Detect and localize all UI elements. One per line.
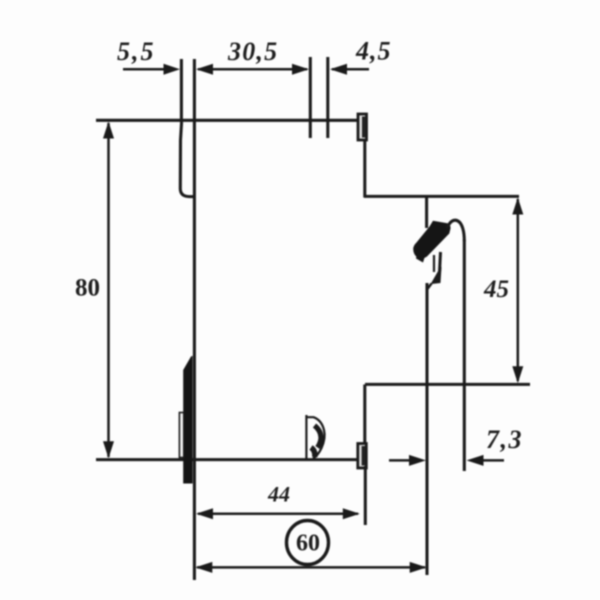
dim 80 bottom arrowhead — [103, 441, 114, 458]
dim 44 line — [198, 513, 358, 516]
toggle tab outline (top front) — [180, 122, 194, 197]
dim 30,5 line — [198, 68, 307, 71]
hook curve over claw to back face — [447, 220, 464, 241]
DIN claw black blob — [413, 221, 450, 263]
dim 5,5 arrow line — [123, 68, 166, 71]
dim 45 vertical line — [517, 199, 520, 381]
dim 44 left arrowhead — [196, 508, 213, 519]
svg-text:44: 44 — [267, 482, 290, 507]
dim 45 top arrowhead — [512, 198, 523, 215]
dim 60 circle — [287, 521, 329, 565]
back inner face lower (x=427) extended down for dim 60 — [425, 283, 428, 575]
body back upper edge (x=426.8) — [425, 197, 428, 229]
extension line 4,5 right (x=328) — [326, 57, 329, 138]
body right lower edge (x=365) — [363, 385, 366, 445]
dim 4,5 arrow line — [332, 68, 369, 71]
extension line 5,5 left (x=181.5) — [180, 59, 183, 122]
svg-text:30,5: 30,5 — [227, 37, 278, 66]
svg-text:60: 60 — [296, 531, 320, 557]
claw spring slot detail — [427, 252, 441, 290]
dim 44 right arrowhead — [343, 508, 360, 519]
svg-text:45: 45 — [483, 276, 509, 303]
dim 5,5 arrowhead — [164, 64, 181, 75]
toggle lever black bar (bottom front) — [183, 356, 192, 484]
body right upper edge (x=365) — [363, 140, 366, 198]
dim 60 right arrowhead — [410, 562, 427, 573]
dim 45 bottom arrowhead — [512, 366, 523, 383]
svg-text:80: 80 — [75, 275, 100, 302]
dim 80 vertical line — [107, 123, 110, 457]
toggle lock tab outline — [179, 413, 183, 458]
back outer face (x=464.3) — [463, 240, 466, 471]
dim 30,5 right arrowhead — [292, 64, 309, 75]
dim 60 line — [197, 566, 425, 569]
dim 7,3 right arrow — [482, 459, 504, 462]
dim 7,3 left arrow — [389, 459, 411, 462]
back step edge (y=384.5) extended right for dim 45 — [365, 383, 530, 386]
dim 80 top arrowhead — [103, 122, 114, 139]
body bottom edge (y=460) with left extension for dim 80 — [96, 458, 358, 461]
body front face (x=194.5) extended top and bottom as extension line — [193, 59, 196, 580]
top terminal block — [358, 114, 367, 140]
body step edge (y=196.5) extended right for dim 45 — [364, 195, 519, 198]
svg-text:4,5: 4,5 — [355, 37, 392, 66]
svg-text:7,3: 7,3 — [486, 425, 523, 454]
bottom terminal block — [358, 444, 367, 469]
body top edge (y=120) with left extension for dim 80 — [96, 119, 358, 122]
dim 30,5 left arrowhead — [196, 64, 213, 75]
dim 4,5 arrowhead — [330, 64, 347, 75]
extension line 44 right (x=365.5) below terminal — [364, 466, 367, 525]
dim 60 left arrowhead — [195, 562, 212, 573]
extension line 4,5 left (x=310.5) — [309, 57, 312, 138]
svg-text:5,5: 5,5 — [117, 37, 156, 66]
bottom clip hook small — [306, 415, 324, 460]
